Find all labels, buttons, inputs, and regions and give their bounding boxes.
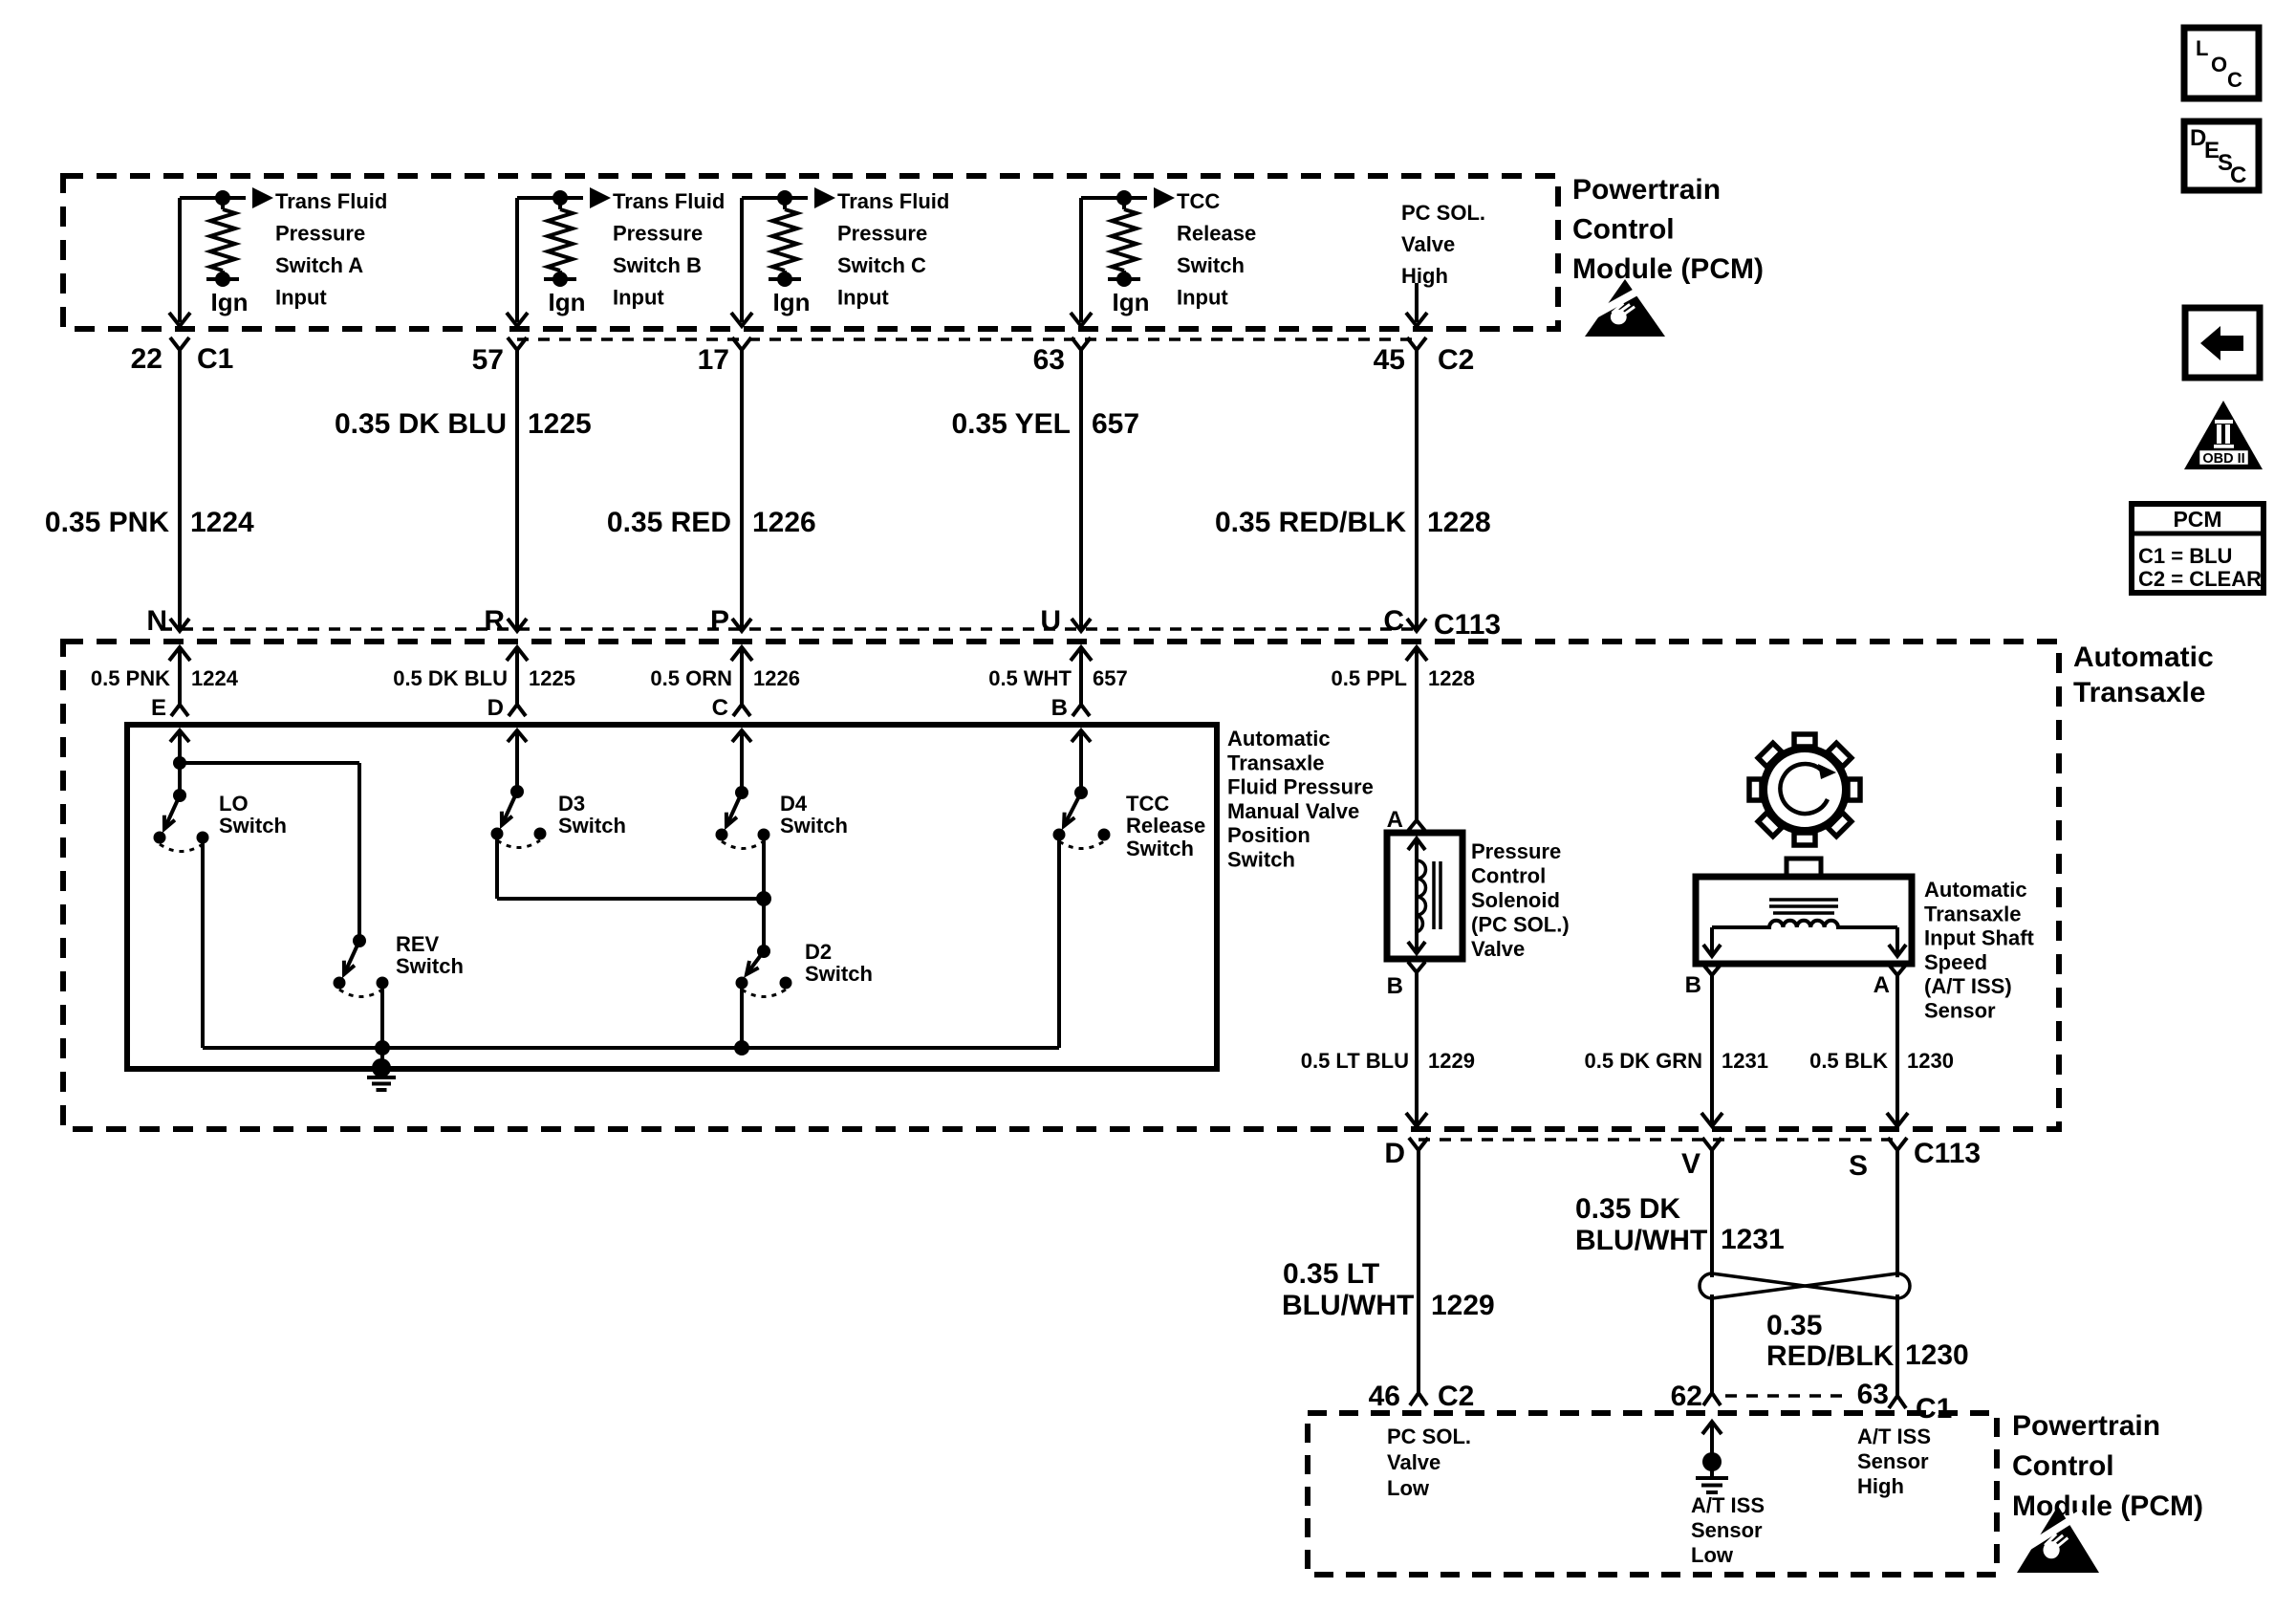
svg-text:Ign: Ign — [773, 288, 811, 316]
svg-text:0.35 DK BLU: 0.35 DK BLU — [335, 408, 507, 440]
case connector pin D — [509, 705, 526, 716]
input shaft reluctor wheel icon — [1749, 734, 1860, 845]
wire 62 below twist — [1710, 1295, 1714, 1393]
svg-text:BLU/WHT: BLU/WHT — [1575, 1225, 1707, 1256]
svg-text:1231: 1231 — [1722, 1049, 1768, 1073]
wire S into twisted pair — [1895, 1150, 1899, 1277]
wire entering switch box — [1072, 730, 1091, 742]
sensor pin A — [1889, 965, 1906, 975]
wire pin E to LO switch — [178, 730, 182, 795]
svg-text:C: C — [712, 695, 728, 721]
svg-text:Sensor: Sensor — [1857, 1449, 1929, 1473]
svg-text:A/T ISS: A/T ISS — [1857, 1425, 1931, 1448]
svg-text:Input: Input — [1177, 286, 1228, 310]
wire 0.5 DK BLU 1225 into transaxle — [507, 647, 528, 661]
PCM top module box (dashed) — [63, 176, 1558, 329]
sensor pin B — [1703, 965, 1721, 975]
svg-text:RED/BLK: RED/BLK — [1766, 1340, 1895, 1372]
wire 0.35 RED/BLK 1228 — [1415, 350, 1419, 631]
svg-text:D: D — [1384, 1138, 1405, 1169]
svg-text:0.5 ORN: 0.5 ORN — [650, 666, 732, 690]
svg-text:Valve: Valve — [1387, 1450, 1440, 1474]
pin 62 fork — [1703, 1393, 1721, 1405]
svg-text:Input: Input — [837, 286, 889, 310]
svg-text:Switch: Switch — [780, 814, 848, 838]
svg-text:1224: 1224 — [191, 666, 239, 690]
connector fork at x=541 — [508, 337, 527, 350]
wire to connector pin — [1079, 198, 1083, 322]
svg-text:Transaxle: Transaxle — [2073, 677, 2205, 708]
svg-text:0.5 WHT: 0.5 WHT — [988, 666, 1072, 690]
wire TCC contact down to ground bus — [1057, 835, 1061, 1048]
svg-text:C2: C2 — [1438, 344, 1474, 376]
svg-text:1226: 1226 — [752, 507, 816, 538]
wire 0.35 DK BLU 1225 — [515, 350, 519, 631]
svg-text:1231: 1231 — [1721, 1224, 1785, 1255]
ESD sensitivity symbol — [1585, 279, 1665, 337]
LO switch — [173, 789, 186, 802]
svg-text:1229: 1229 — [1431, 1290, 1495, 1321]
svg-text:1226: 1226 — [753, 666, 800, 690]
wire 0.5 DK GRN 1231 — [1710, 975, 1714, 1115]
case connector pin B — [1072, 705, 1090, 716]
C1 in-line dashed interface (bottom) — [1725, 1394, 1845, 1398]
svg-text:Powertrain: Powertrain — [1572, 174, 1721, 206]
wire 0.35 PNK 1224 — [178, 350, 182, 631]
connector fork at x=1482 — [1407, 337, 1426, 350]
svg-text:0.5 PNK: 0.5 PNK — [91, 666, 170, 690]
Automatic Transaxle box (dashed) — [63, 642, 2059, 1129]
svg-text:Pressure: Pressure — [1471, 839, 1561, 863]
svg-text:0.5 DK GRN: 0.5 DK GRN — [1585, 1049, 1702, 1073]
svg-text:0.5 PPL: 0.5 PPL — [1332, 666, 1407, 690]
svg-text:Fluid Pressure: Fluid Pressure — [1227, 775, 1374, 799]
wire to connector pin — [178, 198, 182, 322]
wire to connector pin — [740, 198, 744, 322]
C113 pin S — [1888, 1138, 1907, 1150]
svg-text:657: 657 — [1093, 666, 1128, 690]
svg-text:Switch B: Switch B — [613, 253, 702, 277]
svg-text:Input: Input — [275, 286, 327, 310]
wire 63 below twist — [1895, 1295, 1899, 1396]
svg-text:657: 657 — [1092, 408, 1139, 440]
svg-text:Sensor: Sensor — [1691, 1518, 1763, 1542]
svg-text:Ign: Ign — [549, 288, 586, 316]
svg-text:0.35 PNK: 0.35 PNK — [45, 507, 169, 538]
svg-text:(A/T ISS): (A/T ISS) — [1924, 974, 2012, 998]
sensor internal lead A — [1895, 927, 1899, 945]
C113 pin C fork — [1407, 619, 1426, 631]
svg-text:REV: REV — [396, 932, 440, 956]
C113 pin V — [1702, 1138, 1722, 1150]
svg-text:Sensor: Sensor — [1924, 999, 1996, 1023]
svg-text:BLU/WHT: BLU/WHT — [1282, 1290, 1414, 1321]
svg-text:Release: Release — [1126, 814, 1205, 838]
svg-text:Switch: Switch — [1227, 848, 1295, 872]
svg-text:62: 62 — [1671, 1381, 1702, 1412]
wire 0.5 WHT 657 into transaxle — [1071, 647, 1092, 661]
Automatic Transaxle Fluid Pressure Manual Valve Position Switch box — [127, 725, 1217, 1069]
svg-text:V: V — [1681, 1148, 1700, 1180]
ground symbol (switch assembly) — [372, 1058, 391, 1077]
C113 pin U fork — [1072, 619, 1091, 631]
svg-text:C113: C113 — [1914, 1138, 1981, 1169]
svg-text:1225: 1225 — [528, 408, 592, 440]
svg-text:57: 57 — [472, 344, 504, 376]
svg-text:O: O — [2211, 53, 2227, 76]
connector fork at x=1131 — [1072, 337, 1091, 350]
svg-text:Switch: Switch — [1126, 837, 1194, 860]
LOC reference icon — [2184, 28, 2259, 98]
svg-text:63: 63 — [1857, 1379, 1889, 1410]
svg-text:Ign: Ign — [211, 288, 249, 316]
svg-text:Powertrain: Powertrain — [2012, 1410, 2160, 1442]
svg-text:Pressure: Pressure — [275, 222, 365, 246]
svg-text:0.35 RED: 0.35 RED — [607, 507, 731, 538]
wire D4 contact down to D2 switch — [762, 835, 766, 951]
svg-text:63: 63 — [1033, 344, 1065, 376]
svg-text:0.5 DK BLU: 0.5 DK BLU — [393, 666, 508, 690]
svg-text:Automatic: Automatic — [2073, 642, 2214, 673]
C113 pin P fork — [732, 619, 751, 631]
pull-up resistor circuit (TCC Switch) — [1081, 196, 1147, 200]
rotation arrow — [1780, 764, 1828, 814]
svg-text:C1: C1 — [1916, 1393, 1952, 1425]
svg-text:Switch: Switch — [558, 814, 626, 838]
svg-text:Switch: Switch — [396, 954, 464, 978]
D4 switch — [735, 786, 748, 799]
svg-text:Manual Valve: Manual Valve — [1227, 799, 1359, 823]
wire pin B to TCC release switch — [1079, 730, 1083, 793]
svg-text:45: 45 — [1374, 344, 1405, 376]
svg-text:C: C — [2230, 163, 2246, 188]
svg-text:Valve: Valve — [1401, 232, 1455, 256]
svg-text:Switch A: Switch A — [275, 253, 363, 277]
svg-text:0.5 BLK: 0.5 BLK — [1809, 1049, 1888, 1073]
svg-text:1229: 1229 — [1428, 1049, 1475, 1073]
svg-text:Input: Input — [613, 286, 664, 310]
svg-text:OBD II: OBD II — [2202, 451, 2244, 467]
svg-text:Module (PCM): Module (PCM) — [1572, 253, 1764, 285]
svg-text:E: E — [151, 695, 166, 721]
C113 pin D — [1409, 1138, 1428, 1150]
svg-text:0.35 LT: 0.35 LT — [1283, 1258, 1379, 1290]
wire to connector pin — [515, 198, 519, 322]
DESC reference icon — [2184, 121, 2259, 190]
A/T ISS sensor low internal wire — [1702, 1422, 1722, 1434]
A/T ISS sensor body — [1696, 877, 1912, 964]
svg-text:1230: 1230 — [1907, 1049, 1954, 1073]
wire entering switch box — [732, 730, 751, 742]
svg-text:C: C — [1383, 605, 1404, 637]
svg-text:Speed: Speed — [1924, 950, 1987, 974]
pin B connector of PC solenoid — [1408, 962, 1425, 972]
svg-text:Position: Position — [1227, 823, 1310, 847]
pull-up resistor circuit (Trans Fluid Switch A) — [180, 196, 246, 200]
svg-text:C1: C1 — [197, 343, 233, 375]
svg-text:46: 46 — [1369, 1381, 1400, 1412]
svg-text:Control: Control — [2012, 1450, 2114, 1482]
svg-text:Control: Control — [1471, 864, 1546, 888]
svg-text:Switch: Switch — [219, 814, 287, 838]
wire D2 contact down to ground bus — [740, 983, 744, 1048]
svg-text:High: High — [1857, 1474, 1904, 1498]
pull-up resistor circuit (Trans Fluid Switch B) — [517, 196, 583, 200]
wire 0.35 RED 1226 — [740, 350, 744, 631]
svg-text:Control: Control — [1572, 214, 1675, 246]
svg-text:Low: Low — [1691, 1543, 1734, 1567]
svg-text:0.35 RED/BLK: 0.35 RED/BLK — [1215, 507, 1406, 538]
wire 0.5 PPL 1228 into transaxle — [1406, 647, 1427, 661]
connector fork at x=776 — [732, 337, 751, 350]
svg-text:C2 = CLEAR: C2 = CLEAR — [2138, 567, 2262, 591]
svg-text:Low: Low — [1387, 1476, 1430, 1500]
svg-text:Transaxle: Transaxle — [1924, 902, 2022, 925]
OBD II icon — [2184, 401, 2263, 469]
pin A connector of PC solenoid — [1408, 820, 1425, 831]
connector C113 in-line dashed interface (bottom) — [1419, 1138, 1897, 1142]
svg-text:Switch: Switch — [805, 962, 873, 986]
sensor pickup coil — [1712, 921, 1897, 927]
svg-text:1224: 1224 — [190, 507, 254, 538]
pull-up resistor circuit (Trans Fluid Switch C) — [742, 196, 808, 200]
svg-text:C: C — [2227, 68, 2242, 92]
wire pin C to D4 switch — [740, 730, 744, 793]
sensor internal lead B — [1710, 927, 1714, 945]
ground tap — [380, 1048, 384, 1068]
svg-text:22: 22 — [131, 343, 162, 375]
svg-text:Solenoid: Solenoid — [1471, 888, 1560, 912]
svg-text:P: P — [710, 605, 729, 637]
ground symbol (A/T ISS sensor low) — [1702, 1452, 1722, 1471]
svg-text:D2: D2 — [805, 940, 832, 964]
svg-text:Pressure: Pressure — [613, 222, 703, 246]
svg-text:High: High — [1401, 264, 1448, 288]
svg-text:PC SOL.: PC SOL. — [1401, 201, 1485, 225]
wire REV contact down to ground bus — [380, 983, 384, 1048]
ESD sensitivity symbol (bottom) — [2017, 1506, 2099, 1573]
TCC release switch — [1074, 786, 1088, 799]
svg-text:TCC: TCC — [1126, 792, 1169, 816]
svg-text:Module (PCM): Module (PCM) — [2012, 1490, 2203, 1522]
wire 0.5 PNK 1224 into transaxle — [169, 647, 190, 661]
svg-text:LO: LO — [219, 792, 249, 816]
svg-text:1225: 1225 — [529, 666, 575, 690]
svg-text:D3: D3 — [558, 792, 585, 816]
REV switch — [353, 934, 366, 947]
wire 0.5 LT BLU 1229 — [1415, 972, 1419, 1115]
wire entering switch box — [508, 730, 527, 742]
svg-text:A: A — [1874, 972, 1890, 998]
wire PC SOL Valve High to pin 45 — [1415, 283, 1419, 322]
wire entering switch box — [170, 730, 189, 742]
svg-text:C113: C113 — [1434, 609, 1501, 641]
svg-text:17: 17 — [698, 344, 729, 376]
case connector pin C — [733, 705, 750, 716]
svg-text:0.35 YEL: 0.35 YEL — [951, 408, 1071, 440]
svg-text:PC SOL.: PC SOL. — [1387, 1425, 1471, 1448]
PCM bottom module box (dashed) — [1308, 1413, 1997, 1575]
C113 pin R fork — [508, 619, 527, 631]
svg-text:B: B — [1685, 972, 1701, 998]
svg-text:B: B — [1051, 695, 1068, 721]
svg-text:N: N — [146, 605, 167, 637]
sensor pole piece bars — [1769, 898, 1838, 902]
wire 0.35 LT BLU/WHT 1229 — [1417, 1150, 1420, 1393]
svg-text:D: D — [487, 695, 504, 721]
wire LO contact down to ground bus — [201, 838, 205, 1048]
svg-text:Trans Fluid: Trans Fluid — [613, 189, 725, 213]
connector fork at x=188 — [170, 337, 189, 350]
svg-text:0.35 DK: 0.35 DK — [1575, 1193, 1680, 1225]
svg-text:1228: 1228 — [1428, 666, 1475, 690]
ground bus wire — [203, 1046, 1059, 1050]
svg-text:Valve: Valve — [1471, 937, 1525, 961]
sensor mounting tab — [1787, 859, 1821, 877]
wire V into twisted pair — [1710, 1150, 1714, 1277]
Pressure Control Solenoid (PC SOL.) valve — [1387, 833, 1462, 959]
svg-text:L: L — [2196, 36, 2208, 60]
connector C113 in-line dashed interface (top) — [161, 627, 1419, 631]
svg-text:A: A — [1387, 807, 1403, 833]
svg-text:S: S — [1849, 1150, 1868, 1182]
wire 0.35 YEL 657 — [1079, 350, 1083, 631]
svg-text:1228: 1228 — [1427, 507, 1491, 538]
pin 46 fork — [1410, 1393, 1427, 1405]
pin 63 fork — [1889, 1396, 1906, 1408]
D2 switch — [757, 945, 770, 958]
connector C2 in-line dashed interface — [517, 337, 1417, 341]
svg-text:1230: 1230 — [1905, 1339, 1969, 1371]
D3 switch — [510, 785, 524, 798]
svg-text:A/T ISS: A/T ISS — [1691, 1493, 1765, 1517]
svg-text:Trans Fluid: Trans Fluid — [837, 189, 949, 213]
svg-text:Pressure: Pressure — [837, 222, 927, 246]
svg-text:Automatic: Automatic — [1227, 727, 1331, 751]
svg-text:C2: C2 — [1438, 1381, 1474, 1412]
svg-text:Switch C: Switch C — [837, 253, 926, 277]
svg-text:Trans Fluid: Trans Fluid — [275, 189, 387, 213]
svg-text:0.35: 0.35 — [1766, 1310, 1822, 1341]
svg-text:D4: D4 — [780, 792, 808, 816]
svg-text:B: B — [1387, 973, 1403, 999]
svg-text:Release: Release — [1177, 222, 1256, 246]
wire 0.5 ORN 1226 into transaxle — [731, 647, 752, 661]
svg-text:Automatic: Automatic — [1924, 878, 2027, 902]
svg-text:R: R — [484, 605, 505, 637]
svg-text:(PC SOL.): (PC SOL.) — [1471, 913, 1570, 937]
svg-text:U: U — [1040, 605, 1061, 637]
svg-text:PCM: PCM — [2173, 507, 2221, 532]
svg-text:0.5 LT BLU: 0.5 LT BLU — [1301, 1049, 1409, 1073]
wire pin D to D3 switch — [515, 730, 519, 792]
PCM connector color legend — [2132, 504, 2264, 593]
C113 pin N fork — [170, 619, 189, 631]
svg-text:Switch: Switch — [1177, 253, 1245, 277]
svg-text:TCC: TCC — [1177, 189, 1220, 213]
wire D3 contact to D4 branch — [495, 834, 499, 899]
wire 0.5 BLK 1230 — [1895, 975, 1899, 1115]
twisted pair crossover — [1712, 1273, 1897, 1298]
case connector pin E — [171, 705, 188, 716]
svg-text:Input Shaft: Input Shaft — [1924, 926, 2035, 950]
svg-text:Transaxle: Transaxle — [1227, 751, 1325, 774]
svg-text:C1 = BLU: C1 = BLU — [2138, 544, 2232, 568]
svg-text:Ign: Ign — [1113, 288, 1150, 316]
branch wire to REV switch — [180, 761, 359, 765]
back arrow icon — [2185, 308, 2260, 378]
